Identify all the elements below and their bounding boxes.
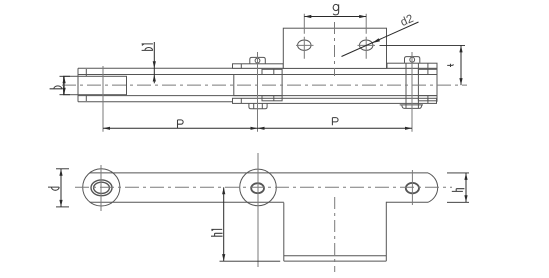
svg-text:d2: d2	[399, 13, 416, 29]
